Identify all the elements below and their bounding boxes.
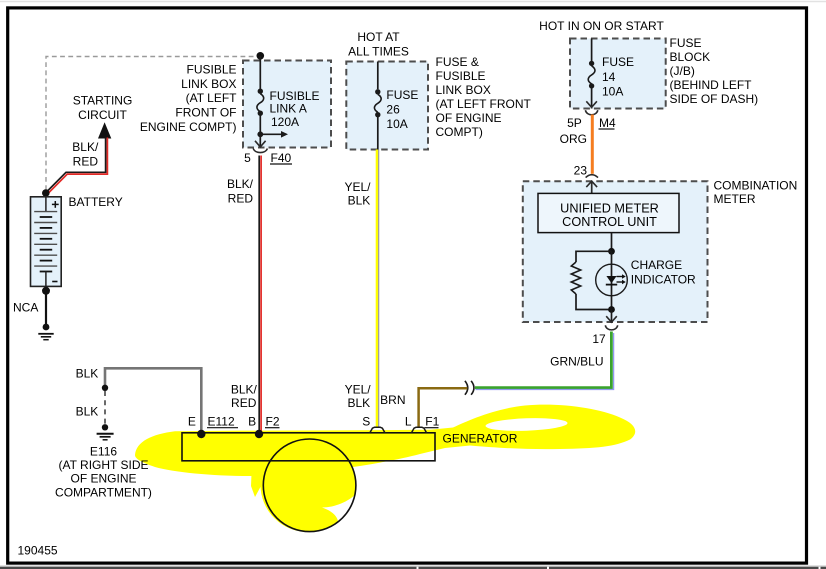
svg-text:RED: RED <box>231 396 257 410</box>
svg-text:YEL/: YEL/ <box>344 180 371 194</box>
LED emission arrows <box>617 277 623 283</box>
highlighter circle fill over generator circle <box>260 437 355 532</box>
svg-text:OF ENGINE: OF ENGINE <box>436 111 502 125</box>
highlighter loop white hole <box>485 417 567 432</box>
terminal S breve <box>370 427 386 433</box>
svg-text:HOT IN ON OR START: HOT IN ON OR START <box>539 19 664 33</box>
svg-text:GENERATOR: GENERATOR <box>443 432 518 446</box>
svg-text:F1: F1 <box>425 414 439 428</box>
svg-text:10A: 10A <box>602 85 623 99</box>
svg-text:UNIFIED METER: UNIFIED METER <box>560 201 659 215</box>
svg-text:BLK/: BLK/ <box>227 177 254 191</box>
svg-text:HOT AT: HOT AT <box>357 30 400 44</box>
svg-text:190455: 190455 <box>18 544 58 558</box>
bottom bar separators <box>417 567 419 569</box>
battery plus terminal label <box>52 203 59 205</box>
node tap junction <box>257 131 263 137</box>
svg-text:COMBINATION: COMBINATION <box>714 179 798 193</box>
wire BLK/RED battery to starting circuit (red stripe) <box>48 138 107 194</box>
svg-text:STARTING: STARTING <box>73 94 133 108</box>
svg-text:(AT LEFT: (AT LEFT <box>186 91 238 105</box>
combination meter box body <box>523 181 708 322</box>
svg-text:FUSE: FUSE <box>670 36 702 50</box>
svg-text:LINK BOX: LINK BOX <box>436 83 491 97</box>
svg-text:B: B <box>248 414 256 428</box>
svg-text:COMPT): COMPT) <box>436 125 483 139</box>
wire BLK/RED to generator B (black) <box>258 156 260 434</box>
svg-text:FRONT OF: FRONT OF <box>175 106 236 120</box>
svg-text:BLK/: BLK/ <box>231 382 258 396</box>
svg-text:BLOCK: BLOCK <box>670 50 711 64</box>
node battery negative junction <box>42 287 50 295</box>
svg-text:COMPARTMENT): COMPARTMENT) <box>55 485 152 499</box>
svg-text:S: S <box>362 414 370 428</box>
svg-text:BLK: BLK <box>76 404 99 418</box>
highlighter missed white wedge inside circle bottom-right <box>322 494 357 531</box>
wire battery to ground <box>45 291 47 325</box>
inline connector arcs <box>465 381 468 395</box>
exit arrow chevron <box>586 101 597 107</box>
fusible link box body <box>243 61 331 148</box>
svg-text:E: E <box>188 414 196 428</box>
highlighter main band over generator box <box>135 405 635 476</box>
svg-text:L: L <box>405 414 412 428</box>
wire through LED <box>611 251 613 309</box>
dashed connection line (starting circuit box outline) <box>46 57 258 191</box>
exit arrow chevron <box>255 141 266 147</box>
svg-text:METER: METER <box>714 192 756 206</box>
svg-text:120A: 120A <box>271 115 299 129</box>
resistor element <box>571 262 580 294</box>
svg-text:5: 5 <box>244 151 251 165</box>
battery minus terminal label <box>52 281 57 283</box>
svg-text:FUSE: FUSE <box>386 88 418 102</box>
wire into fuse 26 <box>377 62 379 90</box>
svg-text:LINK BOX: LINK BOX <box>181 77 236 91</box>
label FUSE BLOCK (J/B) (BEHIND LEFT SIDE OF DASH) <box>670 36 759 106</box>
wire into fusible link <box>259 56 261 89</box>
battery long plates <box>34 212 57 267</box>
unified meter control unit box <box>538 193 679 232</box>
wire fuse 26 to box bottom <box>377 115 379 150</box>
wire unified box to junction <box>611 233 613 252</box>
top window hairline <box>0 1 826 3</box>
svg-text:FUSIBLE: FUSIBLE <box>436 69 486 83</box>
svg-text:14: 14 <box>602 70 616 84</box>
arrow to starting circuit <box>98 122 111 138</box>
node fusible link feed <box>257 52 265 60</box>
svg-text:NCA: NCA <box>13 301 38 315</box>
fuse block box body <box>570 39 666 109</box>
exit arrow chevron <box>606 316 617 322</box>
label FUSE & FUSIBLE LINK BOX (AT LEFT FRONT OF ENGINE COMPT) <box>436 55 532 139</box>
fuse 26 box body <box>346 62 428 150</box>
tap arrow right <box>260 133 282 135</box>
svg-text:OF ENGINE: OF ENGINE <box>70 472 136 486</box>
wire BLK/RED battery to starting circuit (black) <box>47 138 106 193</box>
wire into fuse 14 <box>591 39 593 62</box>
svg-text:E112: E112 <box>208 414 235 428</box>
svg-text:RED: RED <box>228 192 254 206</box>
wire YEL/BLK to generator S (black stripe) <box>378 150 380 428</box>
wire fusible link to tap <box>259 113 261 134</box>
node junction bottom <box>608 306 615 313</box>
battery internal stub top <box>45 197 47 212</box>
svg-text:FUSIBLE: FUSIBLE <box>186 62 236 76</box>
svg-text:FUSE: FUSE <box>602 55 634 69</box>
terminal L breve <box>411 427 427 433</box>
svg-text:17: 17 <box>592 332 606 346</box>
node junction top <box>608 248 615 255</box>
battery body <box>31 197 62 287</box>
battery internal stub bottom <box>45 272 47 287</box>
generator circle <box>263 439 356 532</box>
svg-text:BLK/: BLK/ <box>72 140 99 154</box>
LED charge indicator circle <box>596 264 628 296</box>
svg-text:ALL TIMES: ALL TIMES <box>348 45 409 59</box>
resistor branch wires <box>576 251 612 262</box>
svg-text:SIDE OF DASH): SIDE OF DASH) <box>670 92 759 106</box>
svg-text:BLK: BLK <box>348 396 371 410</box>
dashed wire to E116 ground <box>104 391 106 424</box>
bottom divider light line <box>0 565 826 567</box>
LED cathode bar <box>606 284 617 286</box>
fusible link A element <box>257 89 264 116</box>
svg-text:F40: F40 <box>271 151 292 165</box>
svg-text:YEL/: YEL/ <box>345 382 372 396</box>
wire ORG fuse 14 to combination meter <box>591 115 594 174</box>
generator box body <box>182 433 435 461</box>
connector breve 17 <box>605 325 617 330</box>
svg-text:FUSE &: FUSE & <box>436 55 479 69</box>
fuse 14 element <box>588 61 595 89</box>
svg-text:10A: 10A <box>386 117 407 131</box>
terminal E node <box>197 430 205 438</box>
svg-text:RED: RED <box>73 154 99 168</box>
svg-text:F2: F2 <box>266 414 280 428</box>
svg-text:BLK: BLK <box>348 193 371 207</box>
svg-text:CHARGE: CHARGE <box>631 258 682 272</box>
wire YEL/BLK to generator S (yellow) <box>376 150 378 429</box>
wire GRN/BLU (blue stripe) <box>476 333 614 390</box>
battery short plates <box>40 217 53 272</box>
connector breve M4 <box>585 110 597 115</box>
svg-text:BATTERY: BATTERY <box>69 195 123 209</box>
wire to box exit <box>259 134 261 147</box>
bottom dark bar <box>0 567 826 569</box>
ground battery <box>38 324 53 340</box>
svg-text:BLK: BLK <box>76 366 99 380</box>
fuse 26 element <box>374 89 381 117</box>
connector breve F40 <box>253 149 267 153</box>
terminal B node <box>255 430 263 438</box>
highlighter drip below box left of circle <box>251 461 263 497</box>
label E116 (AT RIGHT SIDE OF ENGINE COMPARTMENT) <box>55 444 152 499</box>
svg-text:23: 23 <box>574 164 588 178</box>
label FUSIBLE LINK BOX (AT LEFT FRONT OF ENGINE COMPT) <box>140 62 237 134</box>
svg-text:(AT LEFT FRONT: (AT LEFT FRONT <box>436 97 532 111</box>
node battery positive junction <box>42 189 50 197</box>
ground E116 <box>97 424 114 440</box>
wire BLK/RED to generator B (red stripe) <box>260 156 262 434</box>
svg-text:5P: 5P <box>567 116 582 130</box>
wire BRN connector to generator L <box>419 388 468 428</box>
svg-text:ORG: ORG <box>560 132 587 146</box>
LED diode triangle <box>606 276 616 283</box>
svg-text:M4: M4 <box>599 116 616 130</box>
svg-text:ENGINE COMPT): ENGINE COMPT) <box>140 120 237 134</box>
wire junction to box exit <box>611 310 613 324</box>
svg-text:LINK A: LINK A <box>270 102 307 116</box>
connector breve 23 <box>586 175 598 178</box>
svg-text:CIRCUIT: CIRCUIT <box>78 108 127 122</box>
svg-text:(J/B): (J/B) <box>670 64 695 78</box>
wire fuse 14 to box exit <box>591 86 593 109</box>
node BLK junction <box>102 385 108 391</box>
wire GRN/BLU (green) <box>475 332 611 388</box>
svg-text:26: 26 <box>386 103 400 117</box>
entry arrow chevron into meter <box>586 181 597 187</box>
svg-text:BRN: BRN <box>380 393 405 407</box>
svg-text:CONTROL UNIT: CONTROL UNIT <box>562 215 657 229</box>
svg-text:(BEHIND LEFT: (BEHIND LEFT <box>670 78 753 92</box>
svg-text:GRN/BLU: GRN/BLU <box>550 355 603 369</box>
resistor branch return <box>576 294 612 310</box>
svg-text:E116: E116 <box>90 444 117 458</box>
wire BLK ground branch <box>105 368 201 430</box>
svg-text:INDICATOR: INDICATOR <box>631 273 696 287</box>
svg-text:(AT RIGHT SIDE: (AT RIGHT SIDE <box>58 458 148 472</box>
